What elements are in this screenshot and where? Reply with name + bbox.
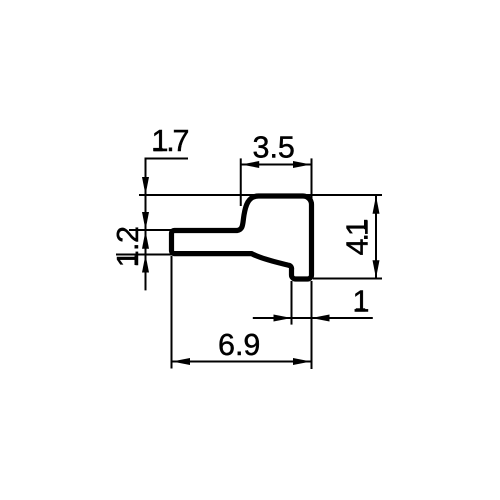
arrow up to y=254.5 <box>142 255 149 273</box>
arrow up 4.1 <box>373 196 380 214</box>
svg-text:4.1: 4.1 <box>340 220 374 255</box>
extension line arm top (y=230) <box>129 229 175 231</box>
left vertical dimension line x=145.5 <box>145 159 147 291</box>
arrow down 4.1 <box>373 260 380 278</box>
arrow right to x=291.5 <box>274 315 292 322</box>
extension line lip left (x=291.5) <box>291 281 293 325</box>
svg-text:1.2: 1.2 <box>111 226 145 267</box>
dimension line 3.5 <box>241 164 312 166</box>
leader line under 1.7 <box>145 158 189 160</box>
serif foot of 1 in 1.2 <box>135 256 138 265</box>
extension line right (x=311.5 lower) <box>311 281 313 369</box>
arrow right 6.9 <box>293 358 311 365</box>
arrow left 6.9 <box>172 358 190 365</box>
arrow down to y=230 <box>142 212 149 230</box>
svg-text:3.5: 3.5 <box>253 130 295 164</box>
extension line 3.5 left (x=240.75) <box>240 158 242 206</box>
arrow right 3.5 <box>293 161 311 168</box>
arrow down to y=195 <box>142 177 149 195</box>
svg-text:1: 1 <box>353 285 370 319</box>
extension line 6.9 left (x=171.5) <box>171 256 173 369</box>
dimension line 6.9 (y=361.5) <box>172 361 312 363</box>
arrow left to x=311.5 <box>312 315 330 322</box>
svg-text:1.7: 1.7 <box>152 124 189 158</box>
extension line top (y=195) <box>139 194 382 196</box>
arrow left 3.5 <box>241 161 259 168</box>
svg-text:6.9: 6.9 <box>218 328 260 362</box>
dimension line 4.1 x=376 <box>375 196 377 279</box>
serif foot of label 1 <box>356 308 365 311</box>
serif foot of 1 in 4.1 <box>364 220 367 229</box>
extension line arm bottom (y=254.5) <box>116 254 175 256</box>
extension line 4.1 bottom (y=278.5) <box>313 278 382 280</box>
arrow up to y=230 <box>142 231 149 249</box>
dimension line 1 (y=318) <box>253 317 373 319</box>
profile outline <box>171 196 311 279</box>
extension line 3.5 right (x=311.5 upper) <box>311 158 313 199</box>
serif foot of 1 in 1.7 <box>153 148 162 151</box>
